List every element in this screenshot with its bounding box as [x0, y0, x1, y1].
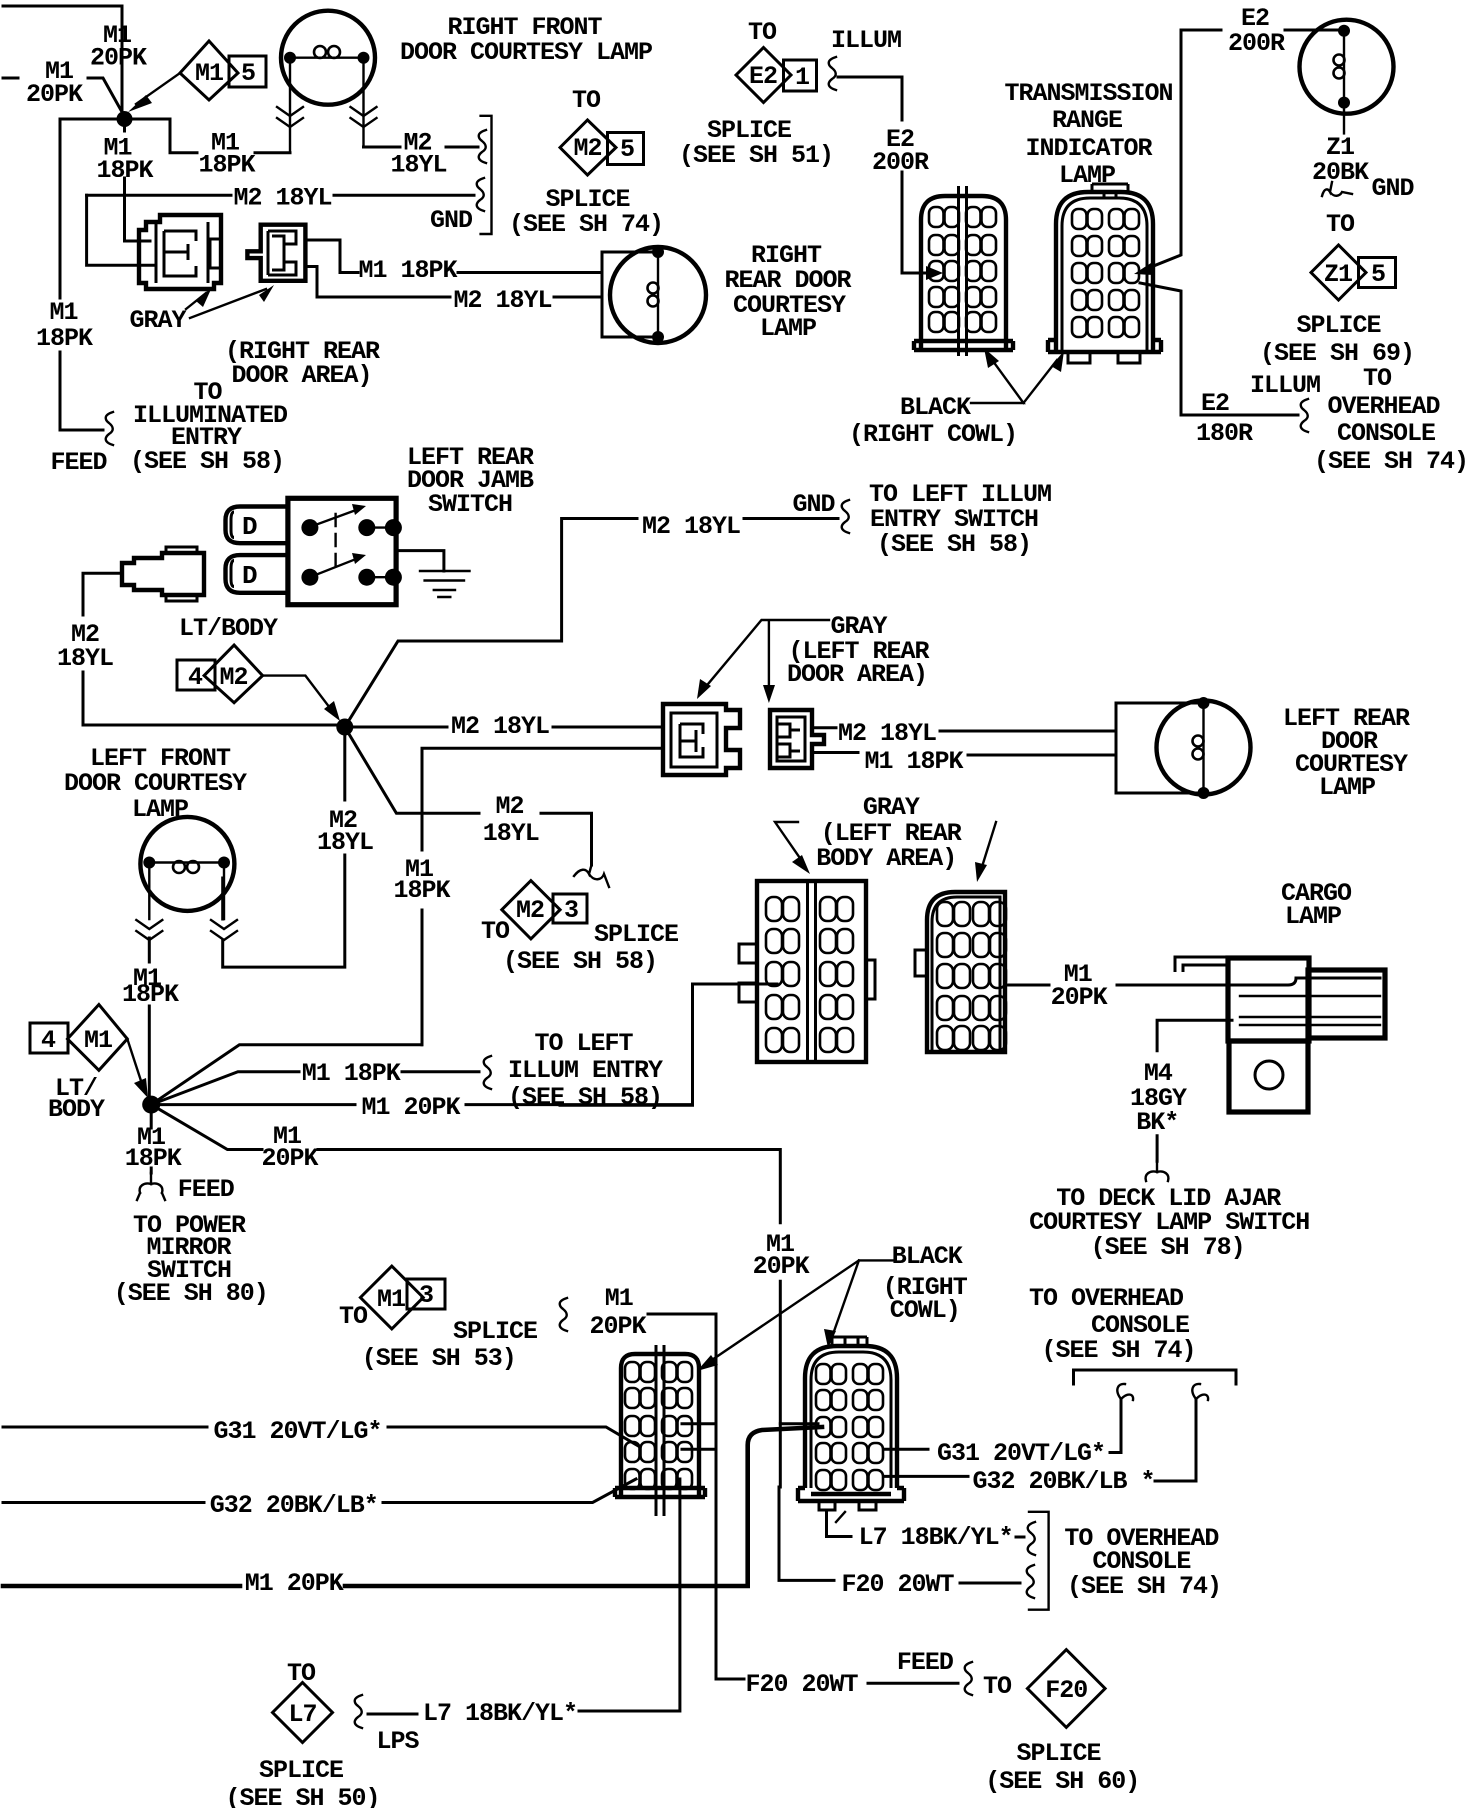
svg-text:G31 20VT/LG*: G31 20VT/LG* [213, 1417, 381, 1446]
svg-text:COWL): COWL) [890, 1296, 960, 1325]
svg-text:SPLICE: SPLICE [453, 1317, 537, 1346]
svg-text:TO: TO [1363, 364, 1392, 393]
leader arrows gray [186, 285, 274, 318]
label LEFT REAR DOOR COURTESY LAMP [1283, 704, 1410, 802]
svg-text:M1 20PK: M1 20PK [361, 1093, 460, 1122]
svg-text:M1 18PK: M1 18PK [302, 1059, 401, 1088]
label LEFT FRONT DOOR COURTESY LAMP [64, 744, 247, 824]
svg-text:M2 18YL: M2 18YL [838, 719, 936, 748]
wire switch to ground [396, 551, 444, 571]
svg-text:D: D [242, 512, 257, 542]
svg-text:M1: M1 [49, 298, 77, 327]
connector ILLUM squiggle [829, 57, 836, 90]
wire M1 20PK to C1 [648, 1314, 744, 1679]
ground hook Z1 [1322, 182, 1352, 196]
label TO ILLUMINATED ENTRY (SEE SH 58) [130, 378, 288, 476]
svg-text:4: 4 [188, 663, 203, 692]
wire G31 20VT/LG* right [884, 1399, 1121, 1453]
svg-text:(SEE SH 78): (SEE SH 78) [1091, 1233, 1245, 1262]
label GRAY (LEFT REAR BODY AREA) [816, 793, 962, 873]
svg-text:M1: M1 [195, 59, 223, 88]
svg-text:200R: 200R [1228, 29, 1285, 58]
wire E2 180R from T2 [1140, 283, 1298, 415]
svg-text:(SEE SH 58): (SEE SH 58) [877, 530, 1031, 559]
wire E2 200R vertical to T2 [1146, 30, 1181, 269]
wire M1 18PK J3 to illum entry [151, 1072, 479, 1105]
label TO OVERHEAD CONSOLE (SEE SH 74) upper [1029, 1284, 1196, 1365]
svg-text:(SEE SH 74): (SEE SH 74) [1041, 1336, 1195, 1365]
lamp2 bracket [602, 252, 657, 337]
svg-text:200R: 200R [872, 148, 929, 177]
wire M1 20PK left entry [3, 78, 122, 112]
connector door R male [770, 710, 824, 768]
leader arrows gray door area [697, 620, 829, 703]
wire M2 18YL plug to junction J2 [83, 573, 337, 725]
connector block C2 bottom right (black cowl) [798, 1337, 904, 1510]
svg-text:M2: M2 [495, 792, 523, 821]
wire M1 18PK lamp4 left lead to J3 [148, 938, 151, 1097]
connector door L female [663, 704, 740, 775]
label M2 18YL [390, 129, 446, 180]
svg-text:FEED: FEED [897, 1648, 954, 1677]
splice symbol F20 [1027, 1650, 1105, 1728]
connector squiggle power mirror [137, 1173, 165, 1200]
wire M2 18YL lamp to bracket [364, 146, 479, 149]
label GRAY (LEFT REAR DOOR AREA) [787, 612, 930, 689]
splice symbol M2-5 [560, 120, 644, 175]
svg-text:SPLICE: SPLICE [1296, 311, 1380, 340]
svg-text:(SEE SH 80): (SEE SH 80) [114, 1279, 268, 1308]
label M2 18YL (left) [57, 620, 113, 673]
svg-text:OVERHEAD: OVERHEAD [1327, 392, 1440, 421]
svg-text:(SEE SH 69): (SEE SH 69) [1260, 339, 1414, 368]
lamp5 bracket [1116, 703, 1200, 793]
lamp left front door courtesy [140, 817, 234, 919]
label TO OVERHEAD CONSOLE (SEE SH 74) lower [1064, 1524, 1221, 1601]
svg-text:M1 20PK: M1 20PK [245, 1569, 344, 1598]
label TO POWER MIRROR SWITCH (SEE SH 80) [114, 1211, 268, 1308]
svg-text:G31 20VT/LG*: G31 20VT/LG* [937, 1439, 1105, 1468]
splice symbol M1-3 [360, 1266, 445, 1329]
label M1 20PK (left) [26, 57, 83, 109]
svg-text:G32 20BK/LB*: G32 20BK/LB* [210, 1491, 378, 1520]
svg-text:RANGE: RANGE [1052, 106, 1122, 135]
switch left rear door jamb [288, 498, 402, 604]
svg-text:INDICATOR: INDICATOR [1025, 134, 1152, 163]
wire break chevrons lamp4 right [211, 920, 237, 940]
svg-text:3: 3 [419, 1281, 433, 1310]
lamp right rear door courtesy [610, 246, 706, 343]
connector plug barrel [122, 547, 204, 601]
wire M1 18PK conn2 to lamp2 [305, 240, 602, 273]
label TO / SPLICE / (SEE SH 58) [481, 917, 678, 976]
svg-text:TRANSMISSION: TRANSMISSION [1004, 79, 1172, 108]
svg-text:18YL: 18YL [57, 644, 113, 673]
svg-text:(RIGHT COWL): (RIGHT COWL) [849, 420, 1017, 449]
wire F20 20WT mid [779, 1424, 1020, 1583]
svg-text:3: 3 [564, 896, 578, 925]
connector squiggle entry switch [842, 500, 849, 533]
svg-text:BODY: BODY [48, 1095, 105, 1124]
wire M2 18YL J2 to splice M2-3 [345, 727, 592, 865]
label M4 18GY BK* [1130, 1059, 1187, 1137]
label SPLICE (SEE SH 51) [679, 116, 833, 170]
svg-text:18PK: 18PK [36, 324, 93, 353]
svg-text:(SEE SH 74): (SEE SH 74) [1067, 1572, 1221, 1601]
wire G31 20VT/LG* left [3, 1427, 640, 1447]
svg-text:LAMP: LAMP [1285, 902, 1341, 931]
label SPLICE (SEE SH 50) [225, 1756, 379, 1808]
leader arrows black cowl bottom [697, 1260, 896, 1371]
svg-text:20PK: 20PK [753, 1252, 810, 1281]
wire L7 18BK/YL* from C2 tab [827, 1510, 1025, 1537]
connector squiggle deck lid [1146, 1161, 1169, 1181]
arrowhead into T1 [926, 266, 943, 280]
connector block T1 [914, 186, 1013, 356]
svg-text:180R: 180R [1196, 419, 1253, 448]
connector squiggle upper [479, 130, 486, 163]
svg-text:M2 18YL: M2 18YL [642, 512, 740, 541]
connector D1 [226, 507, 288, 544]
svg-text:5: 5 [241, 59, 255, 88]
wire G32 20BK/LB* left [3, 1479, 636, 1503]
label E2 180R [1196, 389, 1253, 448]
wire M2 18YL to jamb/gnd row [345, 519, 838, 728]
connector squiggle M1-3 [560, 1298, 567, 1331]
svg-text:M1: M1 [84, 1026, 112, 1055]
connector squiggle L7 console [1028, 1522, 1035, 1555]
svg-text:TO: TO [339, 1302, 368, 1331]
svg-text:GRAY: GRAY [863, 793, 920, 822]
connector block B2 body right [915, 892, 1006, 1052]
svg-text:18PK: 18PK [96, 156, 153, 185]
connector squiggle lower [477, 178, 484, 211]
wire M2 18YL gnd row [87, 194, 474, 197]
svg-text:18YL: 18YL [317, 828, 373, 857]
svg-text:Z1: Z1 [1324, 260, 1352, 289]
svg-text:(SEE SH 51): (SEE SH 51) [679, 141, 833, 170]
wire M2 18YL J2 to door conn [345, 726, 663, 729]
svg-text:GND: GND [430, 206, 473, 235]
svg-text:M1 18PK: M1 18PK [358, 256, 457, 285]
splice symbol Z1-5 [1311, 245, 1396, 300]
splice symbol M1-5 [128, 41, 266, 112]
connector block B1 body left [739, 881, 875, 1062]
svg-text:20PK: 20PK [589, 1312, 646, 1341]
wire break chevrons right lead [351, 107, 377, 127]
svg-text:1: 1 [795, 63, 809, 92]
label Z1 20BK [1312, 133, 1369, 187]
svg-text:18YL: 18YL [483, 819, 539, 848]
label M1 18PK (lamp4) [122, 964, 179, 1009]
svg-text:DOOR COURTESY: DOOR COURTESY [64, 769, 247, 798]
svg-text:ILLUM ENTRY: ILLUM ENTRY [508, 1056, 663, 1085]
label M1 18PK (below J1) [96, 134, 153, 186]
svg-text:FEED: FEED [178, 1175, 235, 1204]
console bracket overhead [1074, 1370, 1237, 1400]
wire feed M1 18PK down left [60, 119, 125, 430]
label M1 20PK (cargo) [1051, 960, 1108, 1012]
svg-text:TO LEFT: TO LEFT [534, 1029, 633, 1058]
svg-text:(SEE SH 74): (SEE SH 74) [1314, 447, 1468, 476]
lamp right front door courtesy [281, 11, 375, 153]
svg-text:(SEE SH 60): (SEE SH 60) [985, 1767, 1139, 1796]
node splice junction J1 [117, 111, 133, 127]
connector D2 [226, 555, 288, 593]
svg-text:(SEE SH 58): (SEE SH 58) [503, 947, 657, 976]
connector block C1 bottom left [615, 1345, 705, 1516]
wire break chevrons left lead [277, 107, 303, 127]
connector C2 small male [247, 225, 305, 281]
wire M4 18GY BK* [1157, 1020, 1232, 1161]
svg-text:ILLUM: ILLUM [1250, 371, 1320, 400]
wire M1 18PK door conn to lamp5 [812, 753, 1116, 756]
svg-text:M1: M1 [377, 1285, 405, 1314]
wire E2 200R to block T1 [838, 77, 931, 273]
svg-text:TO: TO [748, 18, 777, 47]
svg-text:SPLICE: SPLICE [259, 1756, 343, 1785]
wire M1 18PK door conn left down [422, 748, 663, 1045]
svg-text:GND: GND [1371, 174, 1414, 203]
splice symbol 4-M1 [30, 1005, 148, 1099]
wire M2 18YL to conn1 [87, 195, 154, 265]
svg-text:D: D [242, 561, 257, 591]
svg-text:F20 20WT: F20 20WT [841, 1570, 954, 1599]
gnd bracket [481, 116, 492, 234]
wire M1 20PK J3 right [151, 1103, 692, 1106]
connector squiggle F20 console [1027, 1565, 1034, 1598]
label SPLICE (SEE SH 60) [985, 1739, 1139, 1796]
splice symbol 4-M2 [177, 645, 340, 721]
label M1 20PK (top) [90, 21, 147, 73]
svg-text:E2: E2 [749, 62, 777, 91]
svg-text:BLACK: BLACK [892, 1242, 963, 1271]
label SPLICE (SEE SH 53) [362, 1317, 537, 1373]
connector FEED squiggle [106, 412, 113, 445]
svg-text:(SEE SH 58): (SEE SH 58) [508, 1083, 662, 1112]
connector squiggle M2-3 [574, 865, 609, 887]
wire G32 20BK/LB* right [884, 1399, 1196, 1481]
svg-text:(SEE SH 58): (SEE SH 58) [130, 447, 284, 476]
svg-text:SPLICE: SPLICE [594, 920, 678, 949]
label RIGHT REAR DOOR COURTESY LAMP [724, 241, 851, 343]
svg-text:(SEE SH 74): (SEE SH 74) [509, 210, 663, 239]
label M1 20PK (splice row) [589, 1284, 646, 1341]
svg-text:20PK: 20PK [26, 80, 83, 109]
tick mark [836, 1512, 845, 1522]
connector squiggle F20 feed [965, 1662, 972, 1695]
svg-text:TO OVERHEAD: TO OVERHEAD [1029, 1284, 1184, 1313]
wire M1 18PK junction to conn [125, 119, 151, 241]
overhead console bracket right [1029, 1512, 1049, 1610]
svg-text:F20: F20 [1045, 1676, 1087, 1705]
wire M1 20PK junction3 to B1 [560, 984, 777, 1105]
wire M1 20PK J3 diag to bottom right [151, 1105, 818, 1424]
connector squiggle illum entry [484, 1056, 491, 1089]
svg-text:L7 18BK/YL*: L7 18BK/YL* [423, 1699, 577, 1728]
svg-text:M2 18YL: M2 18YL [451, 712, 549, 741]
label M1 18PK (vertical) [393, 855, 450, 905]
svg-text:(SEE SH 53): (SEE SH 53) [362, 1344, 516, 1373]
svg-text:E2: E2 [1201, 389, 1229, 418]
svg-text:BK*: BK* [1136, 1108, 1178, 1137]
arrowhead into T2 [1134, 263, 1154, 275]
svg-text:TO: TO [983, 1672, 1012, 1701]
label M1 18PK (down) [125, 1123, 182, 1173]
svg-text:LAMP: LAMP [760, 314, 816, 343]
svg-text:GND: GND [792, 490, 835, 519]
wire break chevrons lamp4 left [136, 920, 162, 940]
splice symbol L7 [273, 1683, 333, 1743]
svg-text:DOOR COURTESY LAMP: DOOR COURTESY LAMP [400, 38, 652, 67]
svg-text:G32 20BK/LB *: G32 20BK/LB * [972, 1467, 1154, 1496]
node junction J3 [142, 1096, 160, 1114]
label M1 18PK (lamp) [198, 129, 255, 180]
lamp dome top-right [1300, 20, 1394, 134]
cargo lamp assembly [1175, 957, 1385, 1112]
svg-text:SWITCH: SWITCH [428, 490, 512, 519]
svg-text:TO: TO [481, 917, 510, 946]
svg-text:18YL: 18YL [390, 151, 446, 180]
label M1 18PK (feed) [36, 298, 93, 353]
svg-text:BODY AREA): BODY AREA) [816, 844, 956, 873]
connector squiggle overhead console [1301, 399, 1308, 432]
label CARGO LAMP [1281, 879, 1352, 931]
svg-text:L7 18BK/YL*: L7 18BK/YL* [859, 1523, 1013, 1552]
connector block T2 [1048, 184, 1161, 363]
label (RIGHT REAR DOOR AREA) [225, 337, 380, 390]
label TRANSMISSION RANGE INDICATOR LAMP [1004, 79, 1172, 190]
svg-text:(SEE SH 50): (SEE SH 50) [225, 1784, 379, 1808]
svg-text:4: 4 [41, 1026, 56, 1055]
label BLACK (RIGHT COWL) [849, 393, 1017, 449]
connector C1 gray right-rear-door [139, 215, 221, 289]
label E2 200R [872, 125, 929, 177]
svg-text:M2: M2 [219, 663, 247, 692]
svg-text:M1: M1 [605, 1284, 633, 1313]
svg-text:20PK: 20PK [261, 1144, 318, 1173]
svg-text:DOOR AREA): DOOR AREA) [787, 660, 927, 689]
svg-text:18PK: 18PK [198, 151, 255, 180]
leader arrows black cowl [971, 348, 1064, 403]
label TO OVERHEAD CONSOLE (SEE SH 74) [1314, 364, 1468, 476]
wire M2 18YL conn2 to lamp2 [305, 267, 602, 298]
ground symbol [420, 571, 470, 597]
splice symbol M2-3 [502, 881, 587, 939]
label TO DECK LID AJAR COURTESY LAMP SWITCH (SEE SH 78) [1029, 1184, 1309, 1262]
svg-text:M1 18PK: M1 18PK [864, 747, 963, 776]
splice symbol E2-1 [736, 48, 817, 103]
svg-text:18PK: 18PK [393, 876, 450, 905]
wire M1 18PK J1 to lamp lead [125, 119, 291, 153]
node junction J2 [336, 719, 353, 736]
lamp left rear door courtesy [1157, 697, 1251, 799]
svg-text:5: 5 [620, 135, 634, 164]
label TO LEFT ILLUM ENTRY (SEE SH 58) [508, 1029, 663, 1112]
svg-text:20BK: 20BK [1312, 158, 1369, 187]
label SPLICE (SEE SH 74) [509, 185, 663, 239]
svg-text:BLACK: BLACK [900, 393, 971, 422]
svg-text:SPLICE: SPLICE [1016, 1739, 1100, 1768]
svg-text:M2: M2 [516, 896, 544, 925]
label E2 200R (right) [1228, 4, 1285, 58]
label M1 20PK (bottom vertical) [753, 1230, 810, 1281]
svg-text:20PK: 20PK [90, 44, 147, 73]
wire M2 18YL door conn to lamp5 [812, 728, 1116, 731]
wire M1 20PK top-left feed [3, 6, 122, 112]
label LEFT REAR DOOR JAMB SWITCH [407, 443, 534, 519]
svg-text:M2 18YL: M2 18YL [453, 286, 551, 315]
svg-text:5: 5 [1371, 260, 1385, 289]
svg-text:GRAY: GRAY [129, 306, 186, 335]
svg-text:18PK: 18PK [122, 980, 179, 1009]
svg-text:DOOR AREA): DOOR AREA) [231, 361, 371, 390]
svg-text:F20 20WT: F20 20WT [745, 1670, 858, 1699]
wire M1 18PK J3 down feed [150, 1105, 153, 1173]
label M2 18YL (down) [317, 806, 373, 857]
svg-text:LAMP: LAMP [1059, 161, 1115, 190]
svg-text:M2 18YL: M2 18YL [233, 184, 331, 213]
svg-text:ILLUM: ILLUM [831, 26, 901, 55]
label BLACK (RIGHT COWL) bottom [883, 1242, 968, 1325]
svg-text:M2: M2 [573, 134, 601, 163]
wire E2 200R right to lamp3 [1181, 29, 1338, 32]
wire L7 18BK/YL* bottom [579, 1479, 680, 1711]
svg-text:LPS: LPS [376, 1727, 419, 1756]
svg-text:CONSOLE: CONSOLE [1337, 419, 1435, 448]
label SPLICE (SEE SH 69) [1260, 311, 1414, 368]
wire L7 splice to label [368, 1713, 417, 1716]
wire M1 20PK B2 to cargo lamp [1005, 978, 1380, 985]
svg-text:TO: TO [572, 86, 601, 115]
svg-text:LAMP: LAMP [1319, 773, 1375, 802]
wire M1 20PK bottom thick [3, 1427, 822, 1586]
svg-text:20PK: 20PK [1051, 983, 1108, 1012]
svg-text:FEED: FEED [50, 448, 107, 477]
svg-text:18PK: 18PK [125, 1144, 182, 1173]
label RIGHT FRONT DOOR COURTESY LAMP [400, 13, 652, 67]
label M1 20PK (diag) [261, 1122, 318, 1173]
svg-text:L7: L7 [288, 1700, 316, 1729]
wire M1 18PK J3 to door conn vertical [151, 1045, 422, 1105]
label M2 18YL (splice row) [483, 792, 539, 848]
connector squiggle LPS [355, 1695, 362, 1728]
wire M2 18YL J2 down to lamp4 [223, 727, 345, 967]
svg-text:LT/BODY: LT/BODY [179, 614, 278, 643]
wire F20 20WT bottom [868, 1682, 958, 1685]
leader arrows gray body area [775, 822, 996, 882]
label TO LEFT ILLUM ENTRY SWITCH (SEE SH 58) [869, 480, 1051, 559]
label LT/ BODY [48, 1074, 105, 1124]
svg-text:TO: TO [1326, 210, 1355, 239]
